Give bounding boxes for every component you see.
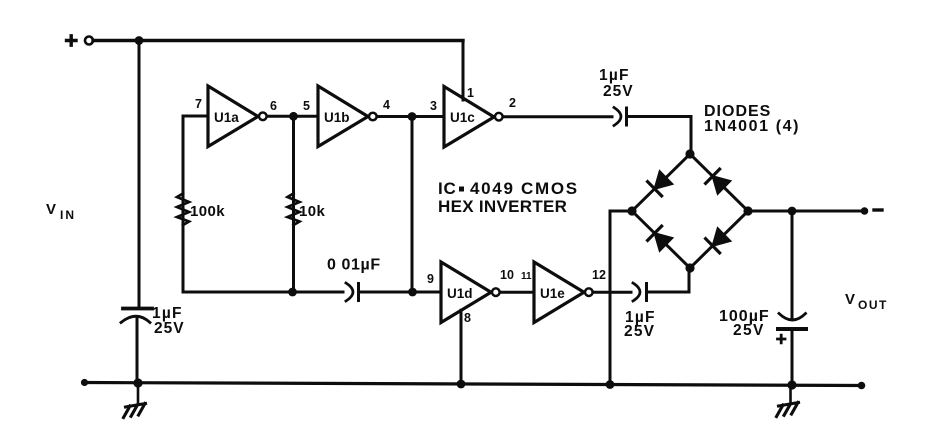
capacitor C2 1uF 25V top bbox=[614, 108, 621, 126]
svg-text:6: 6 bbox=[270, 99, 277, 113]
node bridge-left rail junction bbox=[606, 380, 615, 389]
svg-text:1µF: 1µF bbox=[599, 67, 630, 84]
wire cap to U1d bbox=[359, 291, 442, 294]
svg-text:U1c: U1c bbox=[450, 110, 475, 125]
op-amp U1b (inverter) bbox=[318, 86, 368, 147]
wire cap to bridge top bbox=[627, 117, 692, 155]
svg-text:10k: 10k bbox=[299, 203, 325, 220]
svg-text:V: V bbox=[845, 291, 855, 308]
svg-text:2: 2 bbox=[509, 96, 516, 110]
wire Vin cap to ground rail bbox=[136, 318, 139, 383]
svg-text:IN: IN bbox=[60, 208, 76, 222]
capacitor C4 100uF 25V bbox=[779, 314, 806, 321]
svg-text:U1e: U1e bbox=[540, 286, 565, 301]
node rail left end bbox=[81, 379, 88, 386]
wire 10k vertical bbox=[292, 116, 295, 292]
ground symbol left bbox=[137, 383, 140, 403]
svg-text:V: V bbox=[46, 201, 56, 218]
node bridge left bbox=[627, 206, 636, 215]
capacitor C3 1uF 25V bottom bbox=[633, 283, 640, 301]
op-amp U1a (inverter) bbox=[208, 86, 258, 147]
node pin8-rail junction bbox=[457, 380, 466, 389]
diode D4 bbox=[713, 228, 731, 246]
wire feedback vertical bbox=[411, 117, 414, 293]
node out-U1b junction bbox=[408, 112, 417, 121]
svg-text:9: 9 bbox=[427, 272, 434, 286]
minus sign output bbox=[874, 208, 882, 211]
svg-text:100k: 100k bbox=[190, 203, 225, 220]
wire U1a out bbox=[267, 115, 318, 118]
svg-text:IC: IC bbox=[438, 179, 457, 198]
svg-text:25V: 25V bbox=[733, 322, 765, 339]
svg-text:4: 4 bbox=[383, 98, 390, 112]
wire cap to rail bbox=[791, 329, 794, 385]
svg-text:OUT: OUT bbox=[858, 298, 888, 312]
wire output line bbox=[748, 210, 865, 213]
svg-text:12: 12 bbox=[592, 268, 606, 282]
node bridge right bbox=[743, 206, 752, 215]
diode D1 bbox=[655, 171, 673, 189]
node outcap-rail junction bbox=[787, 380, 796, 389]
diode D2 bbox=[713, 176, 731, 194]
wire Vin vertical bbox=[138, 41, 141, 309]
capacitor C-in 1uF 25V bbox=[123, 307, 152, 311]
wire U1e out bbox=[593, 291, 631, 294]
resistor R2 10k bbox=[288, 194, 300, 226]
wire pin1 drop to U1c bbox=[462, 41, 465, 101]
svg-text:7: 7 bbox=[195, 97, 202, 111]
node output end bbox=[861, 207, 869, 215]
svg-text:HEX INVERTER: HEX INVERTER bbox=[438, 197, 567, 216]
svg-text:25V: 25V bbox=[154, 320, 185, 337]
node bridge top bbox=[685, 149, 694, 158]
node output junction bbox=[788, 207, 797, 216]
ground symbol right bbox=[789, 385, 792, 402]
wire bottom ground rail bbox=[84, 383, 862, 386]
wire U1d out bbox=[500, 291, 534, 294]
node feedback junction bbox=[288, 288, 297, 297]
diode bridge arm bottom-right bbox=[690, 211, 748, 268]
diode D3 bbox=[655, 233, 673, 251]
wire output cap vertical bbox=[791, 211, 794, 317]
svg-text:1: 1 bbox=[467, 86, 474, 100]
svg-text:25V: 25V bbox=[603, 83, 634, 100]
op-amp U1d (inverter) bbox=[441, 262, 491, 323]
node top-rail junction bbox=[135, 36, 144, 45]
input terminal open circle bbox=[85, 37, 93, 45]
wire pin8 to rail bbox=[460, 310, 463, 384]
diode bridge arm top-left bbox=[632, 154, 690, 211]
capacitor C1 0.01uF bbox=[346, 283, 353, 301]
wire bridge left to rail bbox=[610, 211, 632, 384]
wire cap to bridge bottom bbox=[647, 268, 690, 292]
svg-text:4049 CMOS: 4049 CMOS bbox=[470, 179, 579, 198]
svg-text:25V: 25V bbox=[624, 323, 655, 340]
node out-U1a junction bbox=[289, 112, 298, 121]
svg-text:10: 10 bbox=[500, 268, 514, 282]
svg-text:0 01µF: 0 01µF bbox=[327, 257, 381, 274]
svg-text:1N4001 (4): 1N4001 (4) bbox=[704, 118, 800, 135]
wire U1b out bbox=[377, 115, 444, 118]
resistor R1 100k bbox=[177, 194, 189, 226]
diode bridge arm bottom-left bbox=[632, 211, 690, 268]
wire U1a input bbox=[183, 116, 208, 292]
wire feedback bottom bbox=[183, 291, 343, 294]
svg-text:3: 3 bbox=[430, 99, 437, 113]
svg-text:5: 5 bbox=[303, 99, 310, 113]
op-amp U1e (inverter) bbox=[534, 262, 584, 323]
wire top rail bbox=[93, 39, 463, 42]
plus mark 100uF bbox=[778, 335, 786, 343]
node Vin-rail junction bbox=[133, 378, 142, 387]
op-amp U1c (inverter) bbox=[444, 87, 494, 148]
svg-text:U1a: U1a bbox=[214, 110, 239, 125]
node bridge bottom bbox=[685, 263, 694, 272]
node U1d input junction bbox=[408, 288, 417, 297]
svg-text:8: 8 bbox=[464, 311, 471, 325]
svg-text:U1b: U1b bbox=[324, 110, 350, 125]
node rail right end bbox=[858, 382, 866, 390]
wire U1c out bbox=[503, 115, 612, 118]
plus terminal + bbox=[67, 36, 77, 45]
svg-text:11: 11 bbox=[521, 271, 532, 282]
diode bridge arm top-right bbox=[690, 154, 748, 211]
svg-text:U1d: U1d bbox=[447, 286, 473, 301]
